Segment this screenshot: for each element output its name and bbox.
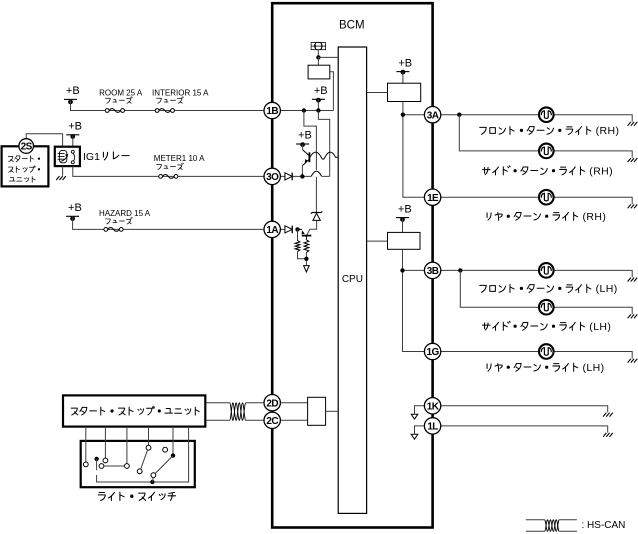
svg-text:CPU: CPU [342,274,363,285]
legend wire lower-left [526,530,545,532]
wire node A to zener [304,111,317,213]
legend twisted pair [545,520,560,532]
power +B (internal 1B row) [312,85,328,103]
diode D1 (3O) [285,173,292,181]
wire IG1 switch to 3O row [73,166,330,176]
diode D3 (1A) [285,226,292,234]
label front turn LH [480,284,591,292]
wire to CPU top [318,56,338,58]
wire node B down to 3O row [318,111,329,177]
wire +B int to row [317,99,319,110]
svg-text:+B: +B [68,121,82,133]
start-stop unit box (bottom) [63,395,205,426]
svg-text:1B: 1B [266,106,278,117]
connector 1L [424,418,440,434]
coil bump on 3O row [311,171,321,176]
legend wire upper-right [559,519,577,521]
svg-text:1A: 1A [266,225,278,236]
svg-text:+B: +B [398,57,412,69]
start-stop unit box [2,146,49,186]
connector 3A [424,107,440,123]
label fuse JP (HAZARD) [106,217,133,224]
connector 3O [264,168,280,184]
svg-text:3O: 3O [266,172,279,183]
wire CPU to relay LH [367,240,388,242]
fuse METER1 10A [159,175,178,179]
svg-text:2S: 2S [21,142,33,153]
fuse HAZARD 15A [104,228,123,232]
lamp front turn LH [539,263,554,278]
light switch box [81,441,195,487]
label fuse JP (ROOM) [106,97,133,104]
wire CPU to relay RH [367,92,388,94]
label fuse JP (METER1) [157,163,184,170]
wire braid to 2C [246,419,265,421]
label rear turn LH [487,363,578,371]
connector 1G [424,343,440,359]
power +B (IG1 switch) [66,121,82,139]
transistor Q1 [302,150,309,166]
ground (rear RH) [628,204,638,208]
ground (front RH) [628,122,638,126]
svg-text:BCM: BCM [339,19,365,31]
lamp side turn LH [539,300,554,315]
svg-text:1K: 1K [427,402,440,413]
ground (1K) [603,413,613,417]
power +B (ROOM feed) [64,85,80,104]
svg-text:IG1: IG1 [83,151,100,163]
wire +B to Q1 [302,144,304,150]
connector 2S [19,139,34,154]
relay coil winding upper [310,152,338,159]
wire +B to relay LH box [402,218,404,233]
svg-text:1E: 1E [427,193,439,204]
wire CAN box to CPU [326,410,339,412]
resistor R1 [295,241,300,252]
connector 2D [264,395,280,411]
transistor Q2 [298,229,312,239]
ground (rear LH) [628,359,638,363]
power +B (HAZARD feed) [66,202,82,221]
wire side LH [460,270,632,314]
wire sw5 [172,427,174,456]
wire 1L to ground [441,426,608,433]
label front turn RH [480,126,591,134]
wire +B to IG1 switch [72,135,74,147]
svg-text:+B: +B [68,202,82,214]
wire 2C to CAN box [280,419,307,421]
node R1-R2 junction [304,257,308,261]
node 3B branch [458,268,462,272]
wire 1K to ground [441,406,608,413]
wire +B to 1B row into BCM [71,99,334,110]
wire pole1 to contact [96,459,98,470]
ground (IG1 coil) [56,176,66,180]
wire 3A row [441,115,632,122]
switch pole dot 1 [94,457,98,461]
connector 1A [264,221,280,237]
label rear turn RH [487,212,578,220]
switch blade 1 [141,450,148,469]
power +B (relay RH) [396,57,412,74]
label fuse JP (INTERIOR) [157,97,184,104]
connector 1K [424,398,440,414]
label start line3 [9,176,35,182]
wire node to R1 [297,229,299,240]
wire zener to Q2 collector [307,220,317,235]
wire 1L to arrow [415,426,425,434]
svg-text:(RH): (RH) [589,166,613,178]
node icon junction [316,55,320,59]
svg-text:1L: 1L [427,422,438,433]
wire braid to 2D [246,402,265,404]
svg-text:ROOM 25 A: ROOM 25 A [99,89,143,98]
wire rear RH [441,197,632,204]
svg-text:INTERIOR 15 A: INTERIOR 15 A [152,89,209,98]
IG1 relay [55,147,80,166]
wire timer box to 1B row [330,72,334,111]
node relay LH out [400,268,404,272]
lamp rear turn LH [539,344,554,359]
switch contacts [83,445,167,477]
resistor R2 [304,240,309,253]
flasher/sound icon [311,42,326,50]
svg-text:+B: +B [398,203,412,215]
wire rear LH [441,352,632,359]
svg-text:(LH): (LH) [596,283,618,295]
node A on 1B row [302,108,306,112]
CAN transceiver box [308,397,326,425]
label relay JP [103,152,129,160]
wire +B to 1A row [73,216,285,229]
wire relay RH to 3A [403,114,425,116]
wire sw3 [126,427,128,464]
wire sw2 [104,427,106,458]
svg-text:3B: 3B [427,266,439,277]
lamp front turn RH [539,107,554,122]
fuse INTERIOR 15A [155,109,174,113]
wire relay LH to 1G [403,249,425,351]
arrow out (1K) [411,414,418,419]
zener diode D2 [311,211,322,213]
fuse ROOM 25A [105,109,124,113]
legend wire lower-right [559,530,577,532]
svg-text:(LH): (LH) [589,321,611,333]
HS-CAN twisted pair [230,403,246,420]
wire 1K to arrow [415,406,425,414]
node bottom bus [150,480,154,484]
svg-text:+B: +B [298,130,312,142]
connector 1B [264,102,280,118]
node relay RH out [401,113,405,117]
svg-text:METER1 10 A: METER1 10 A [154,154,205,163]
wire +B to relay RH box [402,72,404,84]
connector 2C [264,412,280,428]
svg-text:1G: 1G [427,347,440,358]
ground (side RH) [628,158,638,162]
legend wire upper-left [526,519,545,521]
relay coil box RH [388,83,421,101]
stub contact to bus [151,478,154,482]
label start line1 [8,156,39,162]
wire Q1 collector to 3O row [301,166,303,177]
wire front LH [441,270,632,277]
wire coil to ground [62,166,64,176]
wire relay LH to 3B [403,269,425,271]
label start-stop unit [71,407,199,416]
switch blade 2 [155,456,173,474]
label light switch [98,492,175,500]
connector 3B [424,262,440,278]
lamp rear turn RH [539,190,554,205]
node 1A row junction [295,227,299,231]
arrow to ground (internal) [304,266,310,272]
CPU block [338,47,366,513]
wire side RH [459,115,632,158]
relay coil box LH [388,232,421,249]
wire icon stem [317,50,319,58]
svg-text:HAZARD 15 A: HAZARD 15 A [99,209,151,218]
wire R2 bottom to arrow [305,252,307,265]
wire down to timer box [317,57,319,65]
wire unit to braid upper [205,402,229,404]
power +B (Q1 emitter) [296,130,312,147]
svg-text:+B: +B [314,85,328,97]
svg-text:2C: 2C [266,416,278,427]
node B on 1B row [316,108,320,112]
ground (front LH) [628,278,638,282]
wire 2S to IG1 coil [26,134,62,147]
label start line2 [8,166,39,172]
BCM module box [272,3,432,527]
lamp side turn RH [539,144,554,159]
wire relay RH to 1E [403,102,425,198]
wire contact link [104,465,125,467]
svg-text:(RH): (RH) [583,211,607,223]
switch pole dot 2 [171,453,175,457]
node 3A branch [457,113,461,117]
ground (side LH) [628,314,638,318]
wire 2D to CAN box [280,402,307,404]
wire R1 bottom [298,252,307,259]
ground (1L) [603,433,613,437]
svg-text:2D: 2D [266,398,278,409]
power +B (relay LH) [396,203,412,222]
label side turn RH [482,166,584,175]
svg-text:: HS-CAN: : HS-CAN [582,520,626,531]
svg-text:+B: +B [66,85,80,97]
arrow out (1L) [411,434,418,439]
wire sw4 [148,427,150,446]
wire sw6 + bottom bus [97,427,189,482]
timer box U1 [308,65,330,79]
svg-text:(LH): (LH) [583,362,605,374]
node Q1 collector junction [300,174,304,178]
wire unit to braid lower [205,419,229,421]
label side turn LH [482,321,584,330]
svg-text:(RH): (RH) [596,125,620,137]
svg-text:3A: 3A [427,110,439,121]
connector 1E [424,189,440,205]
wire sw1 [85,427,87,462]
